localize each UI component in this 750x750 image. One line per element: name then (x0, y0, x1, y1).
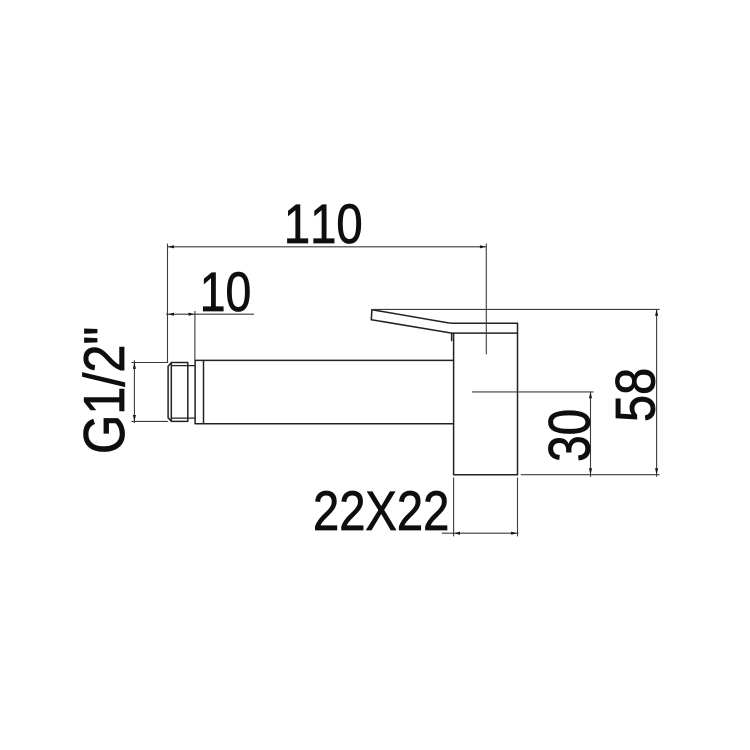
label 30 rotated (538, 409, 602, 462)
dim 58 line (656, 309, 658, 476)
svg-text:58: 58 (604, 368, 667, 422)
arrow G1/2 top (133, 363, 136, 369)
dim 30 line (590, 392, 592, 477)
dim 22x22 right extension line (517, 478, 519, 537)
arrow 110 right (480, 245, 486, 248)
dim G1/2 line (133, 360, 135, 423)
arrow 22x22 left (454, 532, 460, 535)
dim 10 right extension line (194, 311, 196, 360)
arrow 10 left (168, 313, 174, 316)
handle lever sloped bottom edge (371, 320, 452, 333)
svg-text:30: 30 (538, 409, 602, 462)
dim 30 top extension line pipe axis (472, 391, 594, 393)
thread root top line (171, 365, 195, 367)
svg-text:10: 10 (200, 260, 252, 323)
label 58 rotated (604, 368, 667, 422)
handle lever sloped top edge (372, 310, 448, 323)
arrow 110 left (168, 245, 174, 248)
plate top / handle seat line (452, 332, 518, 334)
thread outer profile G1/2 nipple (168, 363, 188, 422)
arrow 30 bottom (589, 468, 592, 474)
arrow 58 bottom (655, 468, 658, 474)
svg-text:G1/2": G1/2" (73, 327, 137, 454)
arrow 30 top (589, 392, 592, 398)
wall plate body (454, 323, 518, 474)
arrow 10 right (189, 313, 195, 316)
dim 110 right extension line (485, 244, 487, 355)
label 110 (284, 192, 363, 255)
dim 58 top extension line (373, 308, 660, 310)
collar edge line (203, 360, 205, 423)
handle tip edge (370, 310, 373, 320)
dim 22x22 left extension line (453, 478, 455, 537)
dim 110 line (168, 246, 487, 248)
dim 10 line (166, 313, 254, 315)
svg-text:110: 110 (284, 192, 363, 255)
label 10 (200, 260, 252, 323)
dim G1/2 top extension line (132, 362, 169, 364)
svg-text:22X22: 22X22 (313, 479, 449, 542)
arrow 22x22 right (511, 532, 517, 535)
dim G1/2 bottom extension line (132, 420, 169, 422)
dim 22x22 line (442, 532, 519, 534)
handle neck tick (451, 333, 453, 340)
thread root bottom line (171, 417, 195, 419)
arrow 58 top (655, 309, 658, 315)
thread chamfer boundary line (170, 363, 172, 422)
spout pipe body (195, 360, 454, 423)
handle lever top flat (448, 322, 518, 325)
label 22X22 (313, 479, 449, 542)
shared bottom extension line for 30 and 58 (521, 474, 660, 476)
dim 110 left extension line (167, 244, 169, 363)
arrow G1/2 bottom (133, 415, 136, 421)
label G1/2 inch rotated (73, 327, 137, 454)
